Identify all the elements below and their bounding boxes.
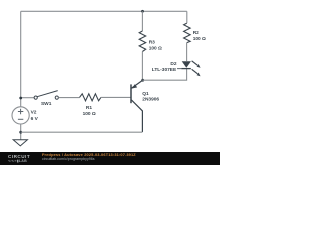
svg-text:6 V: 6 V [31,116,39,122]
emitter arrow Q1 [132,84,137,88]
resistor R2 [184,23,191,42]
logo CIRCUIT [8,154,34,159]
svg-text:Q1: Q1 [142,91,149,97]
footer bar [0,152,220,166]
wire R3 bottom to emitter row [141,52,143,81]
node bottom rail junction [19,131,22,134]
switch SW1 [34,91,58,100]
wire switch to R1 [58,97,79,99]
wire switch feed [21,97,35,99]
svg-text:100 Ω: 100 Ω [83,111,96,117]
ground [13,140,27,146]
wire R2 top [186,11,188,23]
logo wave and LAB [8,159,34,163]
LED D2 triangle [182,61,191,67]
wire R1 to base [101,96,131,98]
resistor R3 [139,31,146,52]
transistor Q1 [131,80,143,132]
wire bottom rail [21,131,143,133]
V2 minus sign [18,118,23,120]
LED light arrow 1 [192,61,198,66]
svg-text:100 Ω: 100 Ω [193,36,206,42]
wire left rail [20,11,22,107]
node switch feed junction [19,97,22,100]
label callout dash D2 [177,68,181,70]
svg-text:R3: R3 [149,39,155,45]
LED light arrow 2 [192,69,198,74]
svg-text:2N3906: 2N3906 [142,97,159,103]
wire top rail [21,10,187,12]
wire LED top to R2 [186,43,188,62]
svg-text:100 Ω: 100 Ω [149,46,162,52]
wire emitter row to LED [142,69,186,80]
svg-text:R1: R1 [86,105,92,111]
svg-text:R2: R2 [193,30,199,36]
footer url text [42,157,95,161]
wire R3 branch top [141,11,143,31]
svg-text:LTL-307EE: LTL-307EE [152,67,177,73]
svg-text:SW1: SW1 [41,101,52,107]
wire V2 to ground [20,124,22,140]
LED D2 cathode bar [181,68,191,70]
resistor R1 [80,94,101,101]
V2 plus sign [18,109,23,114]
svg-text:D2: D2 [170,61,176,67]
voltage source V2 [12,107,29,124]
node emitter junction [141,79,144,82]
svg-text:V2: V2 [31,110,37,116]
footer autosave text [42,152,136,157]
node top R3 junction [141,10,144,13]
